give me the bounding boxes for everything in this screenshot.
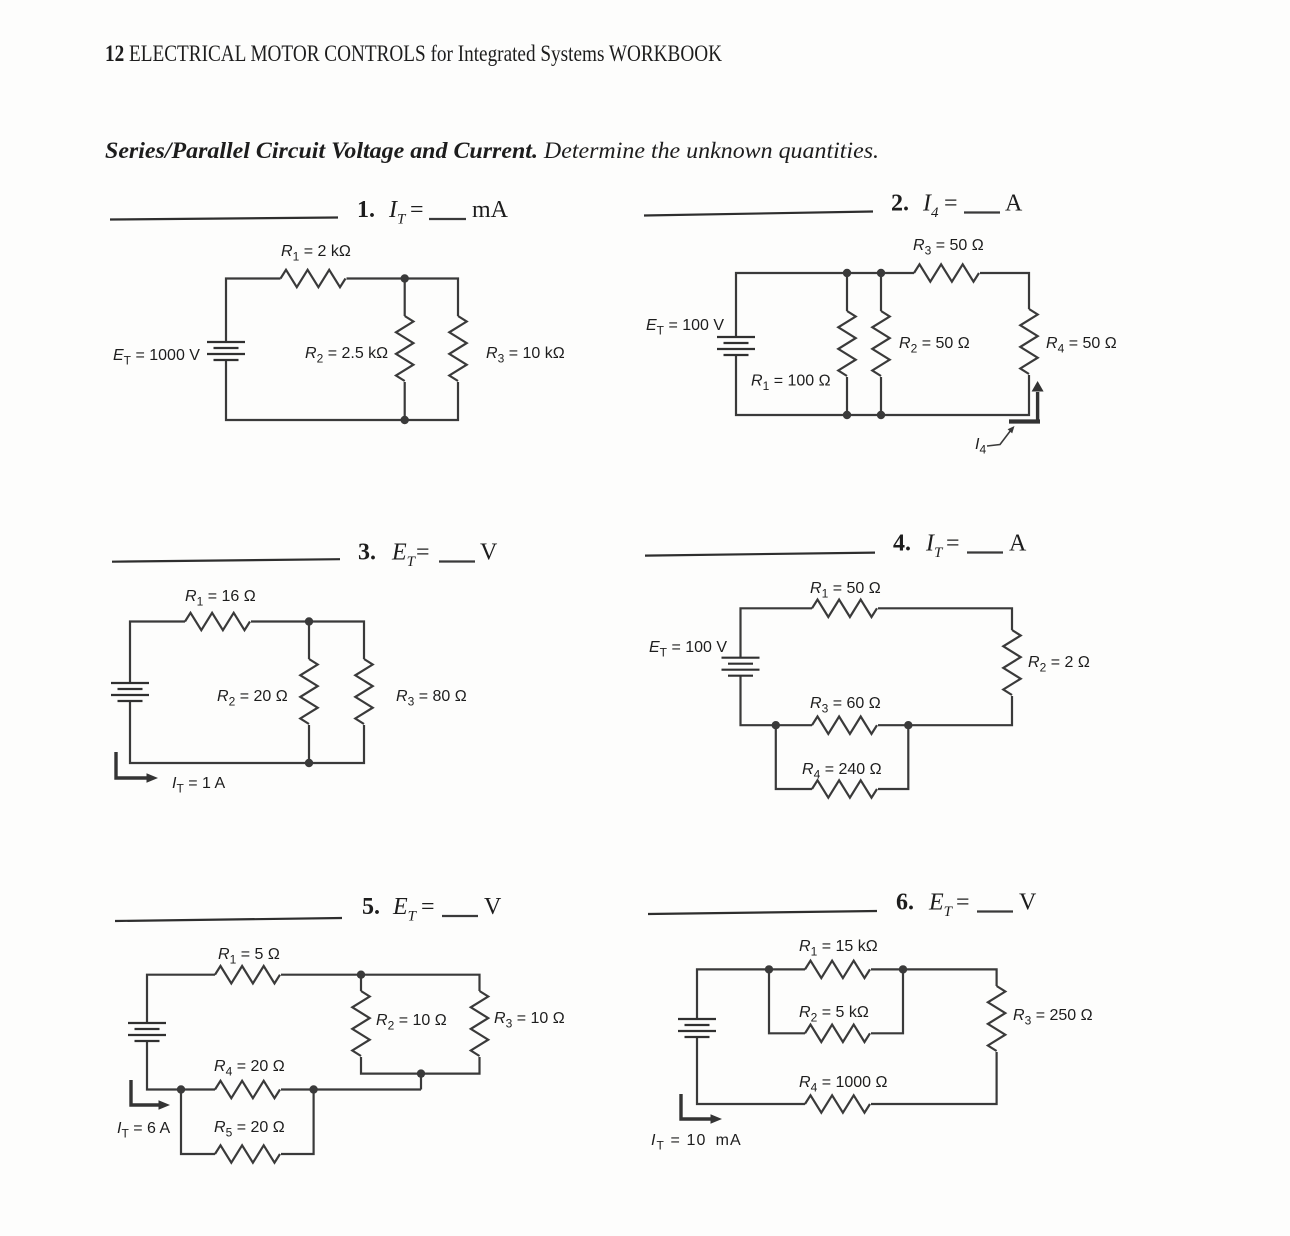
node: circuit 2 bottom junction B [877, 411, 885, 419]
wire: circuit 5 R3 bottom rail right [421, 1057, 480, 1074]
svg-text:12 ELECTRICAL MOTOR CONTROLS: 12 ELECTRICAL MOTOR CONTROLS for Integra… [105, 41, 722, 66]
label I4 with leader (circuit 2) [975, 426, 1015, 457]
current arrow IT (circuit 3) [116, 752, 158, 783]
node: circuit 4 middle junction A [772, 721, 780, 729]
wire: circuit 2 R2 branch top [880, 273, 882, 311]
resistor R1 (circuit 6) [805, 961, 870, 978]
wire: circuit 1 top-right corner [347, 279, 459, 317]
resistor R4 (circuit 4) [812, 780, 877, 797]
wire: circuit 5 top-right corner [281, 975, 480, 991]
node: circuit 3 bottom junction [305, 759, 313, 767]
wire: circuit 2 R2 branch bottom [880, 377, 882, 415]
wire: circuit 3 R2 branch bottom [308, 725, 310, 763]
problem 2 heading [891, 191, 1023, 222]
wire: circuit 3 left-top [130, 622, 185, 684]
problem 3 heading [358, 540, 498, 571]
answer blank line 3 [112, 559, 340, 562]
resistor R1 (circuit 1) [281, 270, 346, 287]
wire: circuit 6 right-bottom [871, 1052, 997, 1104]
wire: circuit 1 R2 branch bottom [404, 382, 406, 420]
wire: circuit 3 top-right corner [251, 622, 364, 660]
battery ET (circuit 5) [128, 1023, 166, 1041]
wire: circuit 5 R2 bottom rail left [361, 1057, 421, 1074]
wire: circuit 2 R1 branch bottom [846, 377, 848, 415]
svg-text:1.: 1. [357, 197, 375, 223]
resistor R4 (circuit 5) [215, 1081, 280, 1098]
svg-text:4.: 4. [893, 531, 911, 557]
answer blank line 4 [645, 553, 875, 556]
svg-text:2.: 2. [891, 191, 909, 217]
node: circuit 5 top junction [357, 971, 365, 979]
problem 5 heading [362, 894, 502, 925]
svg-text:=: = [956, 890, 970, 916]
svg-text:mA: mA [472, 197, 509, 223]
battery ET (circuit 4) [722, 658, 760, 676]
current arrow IT (circuit 6) [681, 1094, 722, 1124]
svg-text:=: = [421, 894, 435, 920]
svg-text:A: A [1005, 191, 1023, 217]
battery ET (circuit 6) [678, 1019, 716, 1037]
wire: circuit 2 top-right corner [980, 273, 1029, 309]
problem 4 heading [893, 531, 1027, 562]
svg-text:5.: 5. [362, 894, 380, 920]
wire: circuit 3 R2 branch top [308, 622, 310, 660]
current arrow I4 (circuit 2) [1009, 381, 1044, 422]
resistor R3 (circuit 4) [812, 717, 877, 734]
wire: circuit 5 left-top [147, 975, 215, 1023]
answer blank line 1 [110, 218, 338, 220]
wire: circuit 1 left-top [226, 279, 281, 344]
node: circuit 1 bottom junction [401, 416, 409, 424]
resistor R4 (circuit 6) [805, 1095, 870, 1112]
wire: circuit 4 R4 branch left [776, 725, 812, 789]
battery ET (circuit 2) [717, 337, 755, 355]
svg-text:V: V [480, 540, 498, 566]
resistor R2 (circuit 5) [352, 991, 369, 1056]
wire: circuit 6 left-top [697, 969, 805, 1019]
current arrow IT (circuit 5) [131, 1080, 170, 1110]
problem 1 heading [357, 197, 509, 228]
node: circuit 3 top junction [305, 617, 313, 625]
wire: circuit 6 R2 branch right [871, 969, 903, 1033]
wire: circuit 5 R2 branch top [360, 975, 362, 991]
resistor R2 (circuit 2) [872, 311, 889, 376]
wire: circuit 4 left-top [741, 608, 813, 658]
svg-text:A: A [1009, 531, 1027, 557]
wire: circuit 5 bottom wire right part [314, 1088, 421, 1090]
svg-text:=: = [416, 540, 430, 566]
wire: circuit 5 bottom wire mid [281, 1088, 314, 1090]
resistor R3 (circuit 2) [914, 264, 979, 281]
node: circuit 1 top junction [401, 274, 409, 282]
svg-text:=: = [944, 191, 958, 217]
answer blank line 2 [644, 212, 873, 216]
resistor R3 (circuit 6) [988, 986, 1005, 1051]
svg-text:=: = [410, 197, 424, 223]
wire: circuit 6 top-right corner [871, 969, 997, 986]
wire: circuit 3 bottom and sides [130, 701, 364, 763]
svg-text:6.: 6. [896, 890, 914, 916]
svg-text:Series/Parallel Circuit Voltag: Series/Parallel Circuit Voltage and Curr… [105, 138, 879, 163]
node: circuit 2 top junction B [877, 269, 885, 277]
resistor R2 (circuit 6) [805, 1025, 870, 1042]
node: circuit 6 top junction A [765, 965, 773, 973]
resistor R1 (circuit 3) [185, 613, 250, 630]
wire: circuit 4 top-right corner [878, 608, 1012, 630]
node: circuit 5 bottom junction B [309, 1085, 317, 1093]
wire: circuit 6 R2 branch left [769, 969, 805, 1033]
node: circuit 5 parallel rail junction [417, 1069, 425, 1077]
wire: circuit 4 right-middle [878, 696, 1012, 725]
wire: circuit 2 bottom and sides [736, 355, 1029, 415]
svg-text:V: V [1019, 890, 1037, 916]
svg-text:V: V [484, 894, 502, 920]
resistor R2 (circuit 4) [1003, 630, 1020, 695]
resistor R3 (circuit 3) [355, 659, 372, 724]
resistor R1 (circuit 4) [812, 600, 877, 617]
battery ET (circuit 3) [111, 683, 149, 701]
problem 6 heading [896, 890, 1037, 921]
resistor R1 (circuit 2) [838, 311, 855, 376]
resistor R1 (circuit 5) [215, 966, 280, 983]
answer blank line 5 [115, 918, 342, 921]
resistor R3 (circuit 1) [449, 316, 466, 381]
wire: circuit 5 rail drop [420, 1074, 422, 1090]
wire: circuit 5 R5 branch left [181, 1090, 215, 1155]
wire: circuit 2 R1 branch top [846, 273, 848, 311]
wire: circuit 6 bottom-left [697, 1037, 805, 1104]
wire: circuit 4 middle-left [741, 676, 813, 725]
resistor R3 (circuit 5) [471, 991, 488, 1056]
svg-text:3.: 3. [358, 540, 376, 566]
wire: circuit 2 left-top [736, 273, 914, 337]
node: circuit 2 bottom junction A [843, 411, 851, 419]
wire: circuit 5 R5 branch right [281, 1090, 314, 1155]
node: circuit 4 middle junction B [904, 721, 912, 729]
resistor R5 (circuit 5) [215, 1145, 280, 1162]
wire: circuit 1 R2 branch top [404, 279, 406, 317]
svg-text:=: = [946, 531, 960, 557]
resistor R2 (circuit 1) [396, 316, 413, 381]
wire: circuit 1 bottom and sides [226, 361, 458, 420]
resistor R2 (circuit 3) [300, 659, 317, 724]
wire: circuit 5 bottom-left [147, 1041, 215, 1090]
resistor R4 (circuit 2) [1020, 309, 1037, 374]
wire: circuit 4 R4 branch right [878, 725, 908, 789]
node: circuit 5 bottom junction A [177, 1085, 185, 1093]
node: circuit 6 top junction B [899, 965, 907, 973]
battery ET (circuit 1) [207, 342, 245, 360]
node: circuit 2 top junction A [843, 269, 851, 277]
answer blank line 6 [648, 911, 877, 914]
